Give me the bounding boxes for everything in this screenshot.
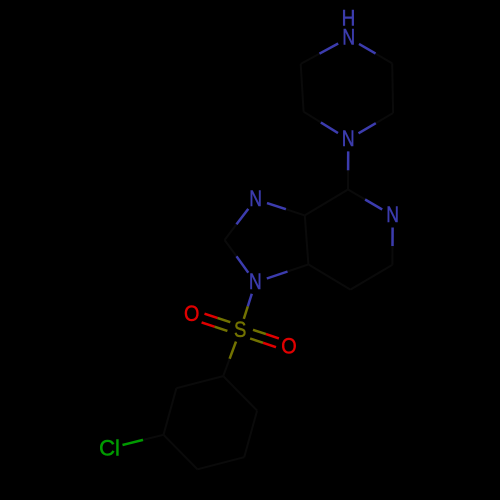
double bond S=O2 line a: [250, 339, 276, 348]
double bond S=O1 line a: [205, 314, 231, 323]
svg-text:S: S: [234, 318, 246, 342]
bond C2p-C3p: [391, 63, 394, 113]
bond C6-C7: [350, 265, 392, 290]
bond C4-N5: [348, 190, 382, 210]
bond N4p-C4: [347, 151, 350, 189]
bond C7-C3a: [308, 264, 350, 289]
bond N4p-C5p: [304, 112, 338, 133]
bond S-B1: [223, 342, 236, 377]
bond B5-Cl: [123, 435, 164, 445]
svg-text:N: N: [386, 203, 399, 227]
svg-text:Cl: Cl: [99, 436, 120, 461]
bond N3-S: [244, 294, 252, 319]
svg-text:N: N: [342, 127, 355, 151]
bond N1p-C6p: [301, 44, 339, 64]
bond C2-N3: [225, 240, 249, 273]
bond C7a-N1: [267, 203, 305, 215]
bond B5-B6: [164, 388, 177, 435]
bond B1-B2: [223, 376, 257, 411]
bond N1p-C2p: [359, 44, 392, 64]
double bond S=O2 line b: [253, 330, 279, 339]
svg-text:N: N: [249, 187, 262, 211]
svg-text:O: O: [184, 302, 199, 326]
svg-text:O: O: [281, 335, 296, 359]
bond N5-C6: [391, 228, 394, 265]
bond C5p-C6p: [301, 64, 304, 112]
bond B4-B5: [164, 435, 198, 470]
bond B6-B1: [176, 376, 223, 388]
bond N1-C2: [225, 209, 249, 240]
bond C3a-C7a: [305, 215, 309, 264]
bond B3-B4: [197, 457, 244, 469]
bond C3p-N4p: [359, 113, 394, 133]
svg-text:N: N: [342, 26, 355, 50]
bond N3-C3a: [267, 264, 309, 278]
bond C7a-C4: [305, 190, 348, 216]
svg-text:N: N: [249, 270, 262, 294]
bond B2-B3: [244, 411, 257, 458]
double bond S=O1 line b: [202, 322, 228, 331]
